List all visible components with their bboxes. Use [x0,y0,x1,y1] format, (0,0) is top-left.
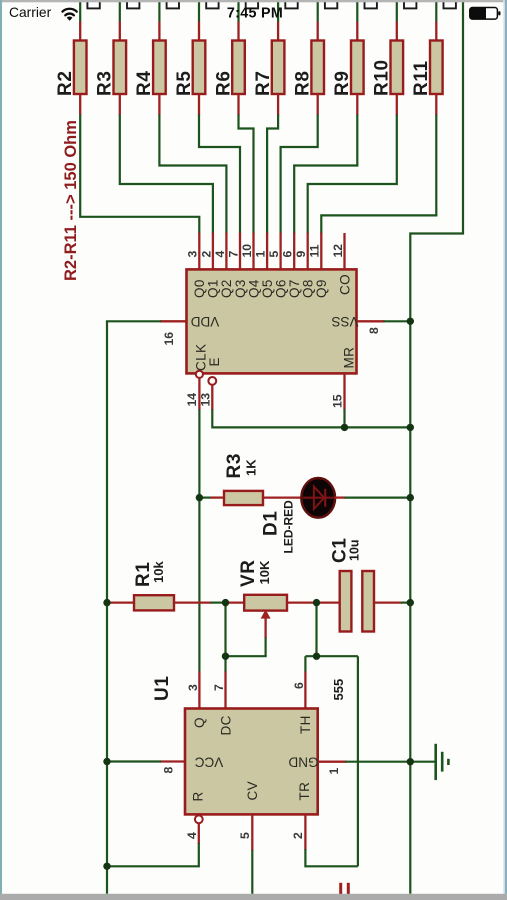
svg-text:R3: R3 [224,453,245,479]
resistor R7 150 Ohm [272,41,285,95]
wire terminal to R2 top [79,0,81,42]
terminal T11 (top connector for R11) [444,0,456,8]
junction right rail / VSS [407,318,414,325]
svg-text:R6: R6 [213,71,234,97]
wire terminal to R7 top [277,0,279,42]
svg-text:4: 4 [213,251,227,258]
svg-text:R10: R10 [372,59,393,96]
wire R1 to VR / node DC [174,601,245,603]
IC U1 555 timer body [185,709,318,815]
svg-text:VCC: VCC [195,754,224,769]
svg-text:3: 3 [186,684,200,691]
wire R11 to 4017 pin 11 [321,94,436,270]
svg-text:7: 7 [226,251,240,258]
svg-text:1: 1 [327,768,341,775]
wire R3 to LED D1 [263,496,302,498]
svg-text:R9: R9 [332,71,353,97]
resistor R9 150 Ohm [351,41,364,95]
junction left rail / VCC [103,758,110,765]
resistor R8 150 Ohm [311,41,324,95]
svg-text:10: 10 [240,244,254,258]
svg-text:16: 16 [162,332,176,346]
resistor R4 150 Ohm [153,41,166,95]
wire R2 to 4017 pin 3 [80,94,199,270]
terminal T8 (top connector for R8) [325,0,337,8]
resistor R5 150 Ohm [193,41,206,95]
terminal T3 (top connector for R3) [127,0,139,8]
svg-text:12: 12 [331,244,345,258]
resistor R6 150 Ohm [232,41,245,95]
svg-text:VR: VR [238,559,259,587]
junction right rail / reset line [407,424,414,431]
svg-text:15: 15 [330,394,344,408]
wire terminal to R11 top [435,0,437,42]
resistor R1 10k [134,595,174,610]
terminal T4 (top connector for R4) [167,0,179,8]
wire R pin 4 to bottom rail [106,823,199,866]
svg-text:2: 2 [199,251,213,258]
svg-text:1K: 1K [244,459,259,476]
wire VR to C1 [287,601,340,603]
svg-text:3: 3 [186,251,200,258]
svg-text:Q9: Q9 [314,279,329,298]
wire threshold node down from C1 node [315,603,317,657]
wire TR pin 2 to threshold branch [305,814,358,866]
svg-text:13: 13 [199,393,213,407]
svg-text:5: 5 [238,832,252,839]
svg-text:VSS: VSS [331,314,358,329]
LED D1 LED-RED [301,478,335,518]
wire R10 to 4017 pin 9 [308,94,397,270]
wire R5 to 4017 pin 7 [199,94,240,270]
svg-text:LED-RED: LED-RED [282,500,296,554]
wire clock net to R3 [199,497,224,499]
terminal T7 (top connector for R7) [285,0,297,8]
wire TR branch down right side [357,656,359,866]
junction right rail / LED [407,494,414,501]
wire R8 to 4017 pin 5 [281,94,318,270]
status bar wifi icon [63,9,77,21]
wire CV pin 5 down off-screen [251,814,253,893]
wire MR pin 15 down to reset line [343,373,345,427]
svg-text:6: 6 [281,251,295,258]
junction TH node top [313,599,320,606]
inversion bubble CLK pin 14 [196,371,203,378]
junction DC node top [222,599,229,606]
svg-text:1: 1 [254,251,268,258]
junction MR / reset line [341,424,348,431]
VR wiper arrow [261,610,271,657]
svg-text:2: 2 [291,832,305,839]
wire R7 to 4017 pin 1 [267,94,278,270]
junction clock / R3 [196,494,203,501]
terminal T10 (top connector for R10) [404,0,416,8]
pin 12 stub (CO, unconnected) [343,233,345,270]
wire VSS pin 8 to right rail [357,320,411,322]
svg-text:7: 7 [212,684,226,691]
wire TH branch down to 555 pin 6 [304,656,306,708]
svg-text:11: 11 [308,244,322,257]
svg-text:R2-R11 ---> 150 Ohm: R2-R11 ---> 150 Ohm [62,120,80,281]
svg-text:R8: R8 [293,71,314,97]
svg-text:Q: Q [192,717,207,728]
terminal T5 (top connector for R5) [206,0,218,8]
IC U2 4017 decade counter body [187,269,357,373]
svg-text:555: 555 [331,679,346,701]
svg-text:8: 8 [162,767,176,774]
svg-text:9: 9 [294,251,308,258]
svg-text:D1: D1 [261,511,282,537]
wire VDD pin 16 to left rail [106,320,187,322]
battery B1 plates (cut off at bottom) [341,883,349,894]
wire terminal to R10 top [396,0,398,42]
terminal T6 (top connector for R6) [246,0,258,8]
svg-text:R4: R4 [134,71,155,97]
svg-text:5: 5 [267,251,281,258]
svg-text:4: 4 [185,832,199,839]
potentiometer VR 10K [244,595,287,611]
svg-text:10k: 10k [151,561,166,583]
wire LED D1 to right rail [335,496,411,498]
junction left rail / reset [103,863,110,870]
svg-text:TR: TR [297,782,312,801]
resistor R10 150 Ohm [391,41,404,95]
svg-text:7:45 PM: 7:45 PM [227,6,283,22]
svg-text:R5: R5 [174,71,195,97]
resistor R2 150 Ohm [74,41,87,95]
wire R4 to 4017 pin 4 [159,94,226,270]
resistor R3 150 Ohm [114,41,127,95]
wire C1 to right rail [374,601,410,603]
svg-text:R11: R11 [411,60,432,96]
wire terminal to R3 top [119,0,121,42]
junction right rail / C1 [407,599,414,606]
terminal T2 (top connector for R2) [87,0,99,8]
svg-text:6: 6 [292,682,306,689]
svg-text:VDD: VDD [191,314,220,329]
wire clock net down to 555 output [198,497,200,709]
wire top-right net (terminal to right rail) [410,0,463,894]
svg-text:DC: DC [219,715,234,735]
resistor R11 150 Ohm [430,41,443,95]
capacitor C1 10u [340,571,374,632]
svg-text:R7: R7 [253,71,274,97]
wire R6 to 4017 pin 10 [239,94,254,270]
ground symbol [436,744,449,780]
svg-text:R: R [191,792,206,802]
wire GND pin 1 to right rail [318,761,411,763]
wire node DC down to 555 pin 7 [224,603,226,709]
svg-text:E: E [207,357,222,366]
svg-text:10K: 10K [257,560,272,584]
wire left rail to R1 [107,601,135,603]
wire threshold link TH to TR branch [305,655,358,657]
svg-text:CV: CV [245,781,260,801]
svg-text:Carrier: Carrier [9,5,52,20]
terminal T9 (top connector for R9) [365,0,377,8]
wire VCC pin 8 to left rail [106,760,185,762]
svg-text:14: 14 [185,393,199,407]
resistor R3 1K [224,491,263,505]
junction left rail / R1 [103,599,110,606]
wire E pin 13 to reset line [212,385,410,428]
svg-text:8: 8 [367,327,381,334]
wire left rail (VDD/VCC rail) [106,321,108,894]
wire terminal to R6 top [237,0,239,42]
wire terminal to R4 top [158,0,160,42]
inversion bubble R pin 4 [195,815,203,823]
svg-text:TH: TH [298,715,313,734]
wire terminal to R9 top [356,0,358,42]
svg-text:CO: CO [337,274,352,295]
wire VR wiper to node DC [226,655,267,657]
svg-text:U1: U1 [152,676,173,702]
wire R9 to 4017 pin 6 [294,94,357,270]
wire terminal to R8 top [317,0,319,42]
status bar battery icon [470,8,501,20]
junction right rail / GND [407,758,414,765]
svg-text:10u: 10u [348,539,362,561]
wire terminal to R5 top [198,0,200,42]
junction DC node bottom [222,653,229,660]
junction TH node bottom [313,653,320,660]
svg-text:GND: GND [288,754,318,769]
wire CLK pin 14 down to clock net [198,378,200,498]
svg-text:R3: R3 [95,71,116,97]
inversion bubble E pin 13 [208,377,216,385]
wire R3 to 4017 pin 2 [120,94,213,270]
wire right rail to ground symbol [410,761,435,763]
svg-text:MR: MR [342,347,357,369]
svg-text:R2: R2 [55,71,76,97]
